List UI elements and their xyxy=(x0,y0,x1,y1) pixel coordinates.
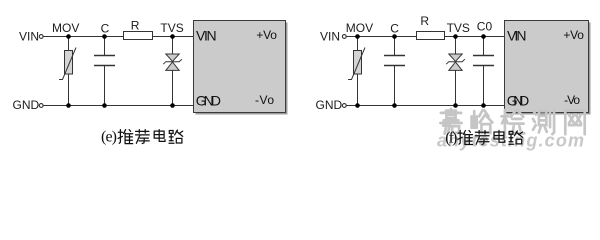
wire: MOV branch vertical xyxy=(357,37,359,106)
svg-text:R: R xyxy=(131,18,140,32)
svg-text:C0: C0 xyxy=(477,20,493,34)
svg-text:C: C xyxy=(390,21,399,35)
varistor MOV xyxy=(59,48,76,80)
svg-text:TVS: TVS xyxy=(160,21,183,35)
TVS diode (bidirectional suppressor) xyxy=(446,54,465,70)
capacitor C0 plates xyxy=(473,56,494,66)
watermark text jiayu jiance wang xyxy=(440,109,584,134)
junction: MOV top xyxy=(66,34,71,39)
svg-text:-Vo: -Vo xyxy=(255,93,274,107)
svg-text:GND: GND xyxy=(196,92,221,108)
VIN input terminal xyxy=(39,35,43,39)
capacitor C plates xyxy=(384,56,405,66)
resistor R xyxy=(124,32,153,40)
junction: TVS bottom xyxy=(170,103,175,108)
junction: TVS top xyxy=(170,34,175,39)
svg-text:MOV: MOV xyxy=(52,21,79,35)
caption chinese: tuijian dianlu (f) xyxy=(458,131,523,145)
junction: C0 top xyxy=(481,34,486,39)
svg-text:-Vo: -Vo xyxy=(564,93,580,107)
capacitor C plates xyxy=(94,56,115,66)
svg-text:GND: GND xyxy=(316,98,343,112)
svg-text:VIN: VIN xyxy=(320,30,340,44)
junction: C top xyxy=(102,34,107,39)
svg-text:VIN: VIN xyxy=(19,30,39,44)
TVS diode (bidirectional suppressor) xyxy=(163,54,182,70)
junction: MOV bottom xyxy=(355,103,360,108)
svg-text:VIN: VIN xyxy=(507,27,527,43)
junction: TVS bottom xyxy=(453,103,458,108)
wire: TVS branch vertical xyxy=(172,37,174,106)
resistor R xyxy=(417,32,445,40)
wire: capacitor C branch vertical xyxy=(394,37,396,106)
wire: bottom rail from GND terminal to module xyxy=(346,105,504,107)
junction: C bottom xyxy=(392,103,397,108)
svg-text:VIN: VIN xyxy=(196,27,217,43)
VIN input terminal xyxy=(342,35,346,39)
wire: top rail from VIN terminal to module xyxy=(346,36,504,38)
junction: MOV top xyxy=(355,34,360,39)
wire: MOV branch vertical xyxy=(68,37,70,106)
svg-text:TVS: TVS xyxy=(447,21,470,35)
caption chinese: tuijian dianlu (e) xyxy=(118,130,183,144)
svg-text:(f): (f) xyxy=(445,130,457,147)
junction: C top xyxy=(392,34,397,39)
wire: top rail from VIN terminal to module xyxy=(43,36,193,38)
svg-text:+Vo: +Vo xyxy=(256,28,277,42)
wire: bottom rail from GND terminal to module xyxy=(43,105,193,107)
DC/DC module shadow xyxy=(507,23,591,115)
DC/DC module box xyxy=(194,21,286,113)
svg-text:C: C xyxy=(101,21,110,35)
junction: C0 bottom xyxy=(481,103,486,108)
junction: C bottom xyxy=(102,103,107,108)
junction: MOV bottom xyxy=(66,103,71,108)
varistor MOV xyxy=(348,48,365,80)
svg-text:MOV: MOV xyxy=(346,21,373,35)
svg-text:GND: GND xyxy=(13,98,40,112)
svg-text:+Vo: +Vo xyxy=(563,28,584,42)
GND input terminal xyxy=(39,104,43,108)
GND input terminal xyxy=(342,104,346,108)
DC/DC module shadow xyxy=(196,23,288,115)
svg-text:GND: GND xyxy=(507,92,530,108)
junction: TVS top xyxy=(453,34,458,39)
svg-text:(e): (e) xyxy=(101,129,117,146)
wire: capacitor C branch vertical xyxy=(104,37,106,106)
wire: TVS branch vertical xyxy=(455,37,457,106)
DC/DC module box xyxy=(505,21,589,113)
wire: capacitor C0 branch vertical xyxy=(483,37,485,106)
svg-text:R: R xyxy=(420,14,429,28)
